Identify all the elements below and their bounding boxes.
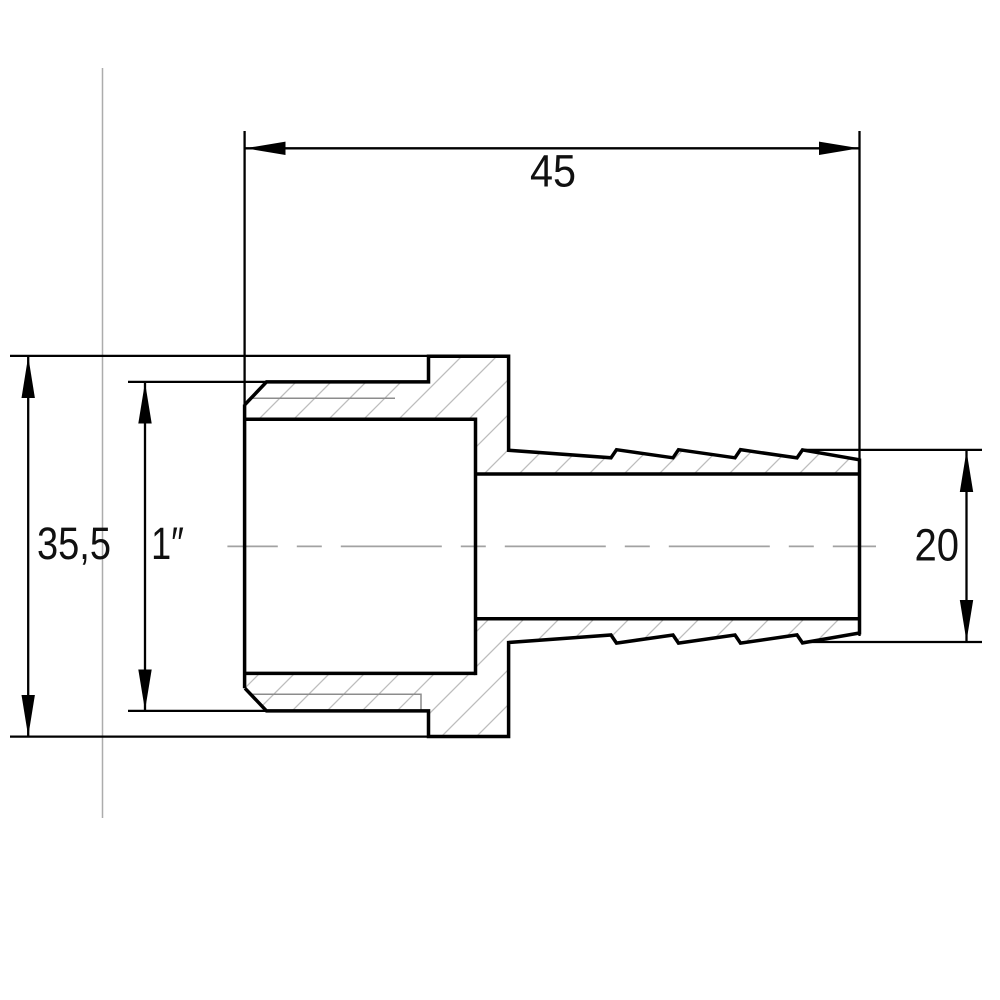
stem bore top line (476, 472, 860, 476)
extension line 20 top (804, 449, 982, 451)
extension line 1inch top (128, 381, 266, 383)
extension line 1inch bottom (128, 710, 266, 712)
hatching of sectioned wall (top) (163, 330, 1000, 480)
svg-text:20: 20 (915, 520, 960, 571)
part outline: top profile with barbs (245, 356, 860, 460)
arrowhead 20 top (960, 451, 973, 492)
extension line 35,5 top (10, 355, 430, 357)
centerline (dash-dot axis) (227, 545, 876, 547)
internal thread root (thin grey) top (252, 397, 395, 399)
dimension line 35,5 (27, 357, 29, 737)
part outline: bottom profile with barbs (245, 633, 860, 737)
arrowhead 45 left (245, 142, 285, 155)
extension line 35,5 bottom (10, 735, 430, 737)
extension line 45 right (858, 131, 860, 636)
dimension line 20 (965, 451, 967, 641)
dimension line 1inch (144, 383, 146, 711)
stem bore bottom line (476, 617, 860, 621)
extension line 45 left (243, 131, 245, 410)
faint leftover vertical axis line (102, 68, 104, 818)
extension line 20 bottom (804, 641, 982, 643)
arrowhead 1inch bottom (138, 670, 151, 711)
stem end face (858, 459, 862, 635)
arrowhead 45 right (819, 142, 859, 155)
bore top line (244, 417, 476, 421)
bore end wall (474, 418, 478, 676)
arrowhead 1inch top (138, 382, 151, 423)
arrowhead 35,5 top (22, 356, 35, 398)
internal thread root (thin grey) bottom with runout (252, 694, 421, 709)
arrowhead 20 bottom (960, 600, 973, 641)
part left face (243, 405, 247, 689)
hatching of sectioned wall (bottom) (153, 610, 1000, 780)
dimension line 45 (245, 147, 859, 149)
svg-text:35,5: 35,5 (37, 518, 111, 569)
svg-text:1″: 1″ (151, 518, 184, 569)
arrowhead 35,5 bottom (22, 695, 35, 736)
bore bottom line (244, 672, 476, 676)
svg-text:45: 45 (530, 147, 576, 197)
